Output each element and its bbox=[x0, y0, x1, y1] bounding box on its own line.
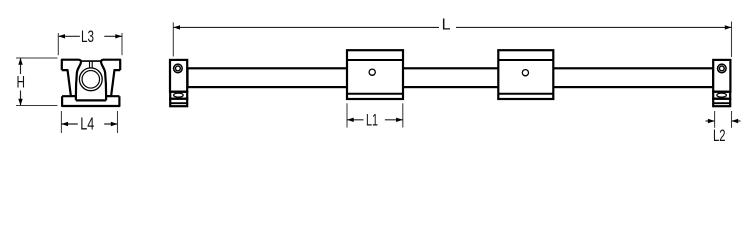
right end block base section bbox=[713, 99, 730, 107]
inner bore circle of cross-section bbox=[82, 71, 100, 89]
right end block slot section bbox=[713, 92, 730, 99]
dimension L3 line bbox=[58, 35, 122, 37]
dimension L4 arrow right bbox=[111, 122, 118, 126]
dimension L extension line left bbox=[172, 22, 174, 56]
dimension L1 extension line left bbox=[346, 103, 348, 127]
right end block screw hole inner circle bbox=[719, 66, 724, 71]
dimension L3 extension line right bbox=[121, 33, 123, 55]
slider block 2 lower groove line bbox=[498, 93, 553, 95]
svg-text:L2: L2 bbox=[713, 127, 726, 145]
dimension H extension line bottom bbox=[16, 105, 58, 107]
left end block base inner line bbox=[170, 102, 187, 104]
slider block 1 upper groove line bbox=[347, 59, 403, 61]
left end block slot section bbox=[170, 92, 187, 99]
right end block slot oval bbox=[717, 93, 727, 97]
dimension L4 extension line right bbox=[117, 111, 119, 133]
dimension L extension line right bbox=[731, 22, 733, 58]
dimension L4 extension line left bbox=[60, 111, 62, 133]
dimension L2 arrow right bbox=[732, 119, 739, 123]
dimension H arrow top bbox=[18, 58, 22, 65]
clamp bridge over bore bbox=[81, 60, 101, 62]
dimension H extension line top bbox=[16, 57, 58, 59]
base plate of rail cross-section bbox=[62, 95, 119, 106]
dimension L2 extension line right bbox=[731, 111, 733, 128]
left flange and stem of cross-section bbox=[62, 60, 81, 96]
slider block 2 center hole bbox=[522, 70, 528, 76]
dimension L2 tail line right bbox=[732, 120, 741, 122]
dimension L3 arrow right bbox=[115, 34, 122, 38]
outer bore circle of cross-section bbox=[79, 68, 102, 91]
dimension L1 arrow right bbox=[396, 118, 403, 122]
left end block screw hole outer circle bbox=[174, 64, 183, 73]
slider block 2 body bbox=[498, 50, 553, 99]
clamp slit lines bbox=[90, 62, 93, 68]
dimension L4 line bbox=[61, 123, 117, 125]
dimension L line bbox=[173, 26, 731, 28]
right end support block body bbox=[713, 60, 730, 92]
dimension L arrow right bbox=[725, 25, 732, 29]
slider block 1 lower groove line bbox=[347, 93, 403, 95]
dimension L1 line bbox=[347, 119, 403, 121]
dimension L arrow left bbox=[173, 25, 180, 29]
left end block slot oval bbox=[174, 93, 184, 97]
left end support block body bbox=[170, 60, 187, 92]
slider block 1 center hole bbox=[369, 69, 375, 75]
svg-text:H: H bbox=[17, 74, 26, 92]
svg-text:L1: L1 bbox=[366, 112, 378, 130]
dimension L3 arrow left bbox=[58, 34, 65, 38]
dimension L2 arrow left bbox=[708, 119, 715, 123]
slider block 2 upper groove line bbox=[498, 59, 553, 61]
dimension L3 extension line left bbox=[57, 33, 59, 55]
slider block 1 body bbox=[347, 50, 403, 99]
dimension L2 tail line left bbox=[706, 120, 715, 122]
left end block base section bbox=[170, 99, 187, 107]
svg-text:L3: L3 bbox=[81, 27, 94, 46]
svg-text:L: L bbox=[442, 16, 451, 33]
dimension L1 arrow left bbox=[347, 118, 354, 122]
right end block screw hole outer circle bbox=[718, 64, 727, 73]
dimension L4 arrow left bbox=[61, 122, 68, 126]
dimension H arrow bottom bbox=[18, 99, 22, 106]
dimension L2 extension line left bbox=[714, 111, 716, 128]
dimension H line bbox=[20, 58, 22, 106]
rail bar bbox=[188, 68, 714, 87]
right flange and stem of cross-section bbox=[101, 60, 120, 96]
dimension L1 extension line right bbox=[402, 103, 404, 127]
svg-text:L4: L4 bbox=[80, 113, 94, 133]
right end block base inner line bbox=[713, 102, 730, 104]
left end block screw hole inner circle bbox=[176, 66, 181, 71]
